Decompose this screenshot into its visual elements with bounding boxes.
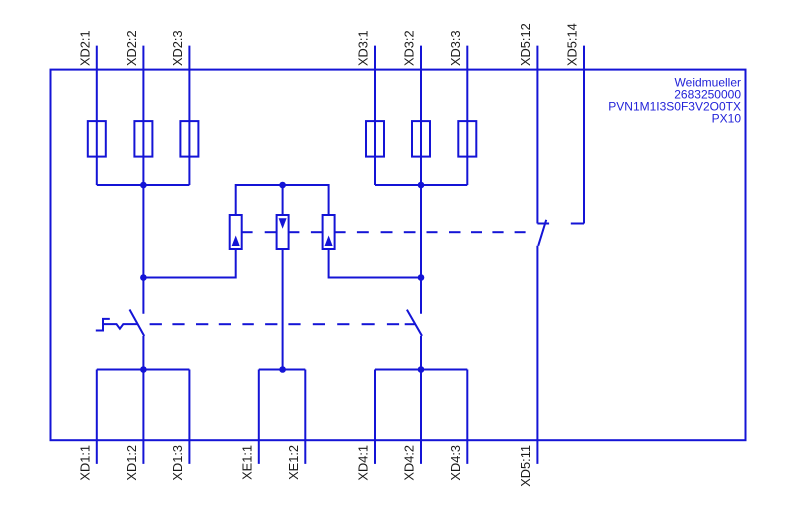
wire XD4:3 stub bbox=[466, 370, 468, 464]
wire arrester trip stub U1 right bbox=[242, 231, 253, 233]
fuse F1 XD2:1 bbox=[88, 121, 106, 157]
surge arrester U1 (left, spark gap) bbox=[230, 215, 242, 249]
svg-text:XD2:1: XD2:1 bbox=[77, 30, 92, 66]
wire XD2:2 vertical upper (terminal through fuse down to switch) bbox=[142, 46, 144, 314]
wire XD2:3 vertical bbox=[188, 46, 190, 185]
svg-text:XD5:12: XD5:12 bbox=[518, 23, 533, 66]
wire dashed trip linkage S1 to S2 bbox=[150, 323, 162, 325]
wire arrester trip stub U3 right bbox=[335, 231, 346, 233]
node junction XD4 join bbox=[418, 366, 425, 373]
fuse F4 XD3:1 bbox=[366, 121, 384, 157]
wire XD1:3 stub bbox=[188, 370, 190, 464]
wire U2 bottom lead to XE1 bbox=[282, 249, 284, 370]
wire XE1:2 stub bbox=[304, 370, 306, 464]
wire arrester trip stub U2 right bbox=[289, 231, 300, 233]
changeover contact S3 fixed contact XD5:12 foot bbox=[537, 223, 549, 225]
node junction XE1 join bbox=[279, 366, 286, 373]
wire XD4:1 stub bbox=[374, 370, 376, 464]
wire arrester trip stub U3 left bbox=[311, 231, 323, 233]
wire XD2 group join line bbox=[97, 184, 190, 186]
svg-text:XD2:3: XD2:3 bbox=[170, 30, 185, 66]
wire arrester top bus bbox=[236, 185, 329, 215]
surge arrester U2 (middle, to earth) bbox=[277, 215, 289, 249]
svg-text:XD4:3: XD4:3 bbox=[448, 445, 463, 481]
node junction XD2 join bbox=[140, 182, 147, 189]
wire XD5:14 vertical bbox=[583, 46, 585, 224]
fuse F6 XD3:3 bbox=[458, 121, 476, 157]
surge arrester U3 (right, spark gap) bbox=[323, 215, 335, 249]
switch S1 blade (on XD2:2) bbox=[130, 310, 145, 337]
device outline border bbox=[51, 70, 746, 441]
thermal trip actuator symbol bbox=[96, 319, 110, 331]
svg-text:XD5:14: XD5:14 bbox=[565, 23, 580, 66]
wire XD2:2 lower vertical bbox=[142, 336, 144, 464]
svg-text:XD2:2: XD2:2 bbox=[124, 30, 139, 66]
wire XD3:2 vertical upper bbox=[420, 46, 422, 314]
svg-text:XD1:2: XD1:2 bbox=[124, 445, 139, 481]
svg-text:XD3:2: XD3:2 bbox=[402, 30, 417, 66]
svg-text:XD4:2: XD4:2 bbox=[402, 445, 417, 481]
svg-text:XD1:3: XD1:3 bbox=[170, 445, 185, 481]
wire U1 bottom lead to XD2:2 bbox=[143, 249, 235, 278]
wire trip stub at switch S2 bbox=[405, 323, 416, 325]
wire XD4 group join line bbox=[375, 369, 467, 371]
fuse F2 XD2:2 bbox=[134, 121, 152, 157]
svg-text:XD5:11: XD5:11 bbox=[518, 445, 533, 487]
wire XD3 group join line bbox=[375, 184, 467, 186]
node junction on XD3:2 bbox=[418, 274, 425, 281]
wire XD5:11 common vertical bbox=[536, 246, 538, 464]
svg-text:XE1:2: XE1:2 bbox=[286, 445, 301, 480]
wire middle arrester top lead bbox=[282, 185, 284, 215]
wire XE1 group join line bbox=[259, 369, 306, 371]
wire XE1:1 stub bbox=[258, 370, 260, 464]
wire XD1 group join line bbox=[97, 369, 190, 371]
fuse F5 XD3:2 bbox=[412, 121, 430, 157]
wire XD4:2 lower vertical bbox=[420, 336, 422, 464]
wire dashed trip linkage to changeover contact bbox=[357, 231, 369, 233]
changeover contact S3 blade bbox=[538, 220, 546, 246]
wire XD2:1 vertical (terminal stub through fuse to join line) bbox=[96, 46, 98, 185]
fuse F3 XD2:3 bbox=[180, 121, 198, 157]
node junction XD1 join bbox=[140, 366, 147, 373]
svg-text:PX10: PX10 bbox=[712, 112, 742, 126]
changeover contact S3 fixed contact XD5:14 foot bbox=[571, 223, 584, 225]
wire XD3:1 vertical bbox=[374, 46, 376, 185]
wire XD1:1 stub bbox=[96, 370, 98, 464]
wire trip line with kink to switch S1 bbox=[103, 324, 138, 329]
svg-text:XD1:1: XD1:1 bbox=[77, 445, 92, 481]
svg-text:XE1:1: XE1:1 bbox=[239, 445, 254, 480]
svg-text:XD3:1: XD3:1 bbox=[356, 30, 371, 66]
wire U3 bottom lead to XD3:2 bbox=[329, 249, 421, 278]
svg-text:XD3:3: XD3:3 bbox=[448, 30, 463, 66]
node junction arrester bus bbox=[279, 182, 286, 189]
wire arrester trip stub U2 left bbox=[265, 231, 277, 233]
wire XD3:3 vertical bbox=[466, 46, 468, 185]
node junction on XD2:2 bbox=[140, 274, 147, 281]
svg-text:XD4:1: XD4:1 bbox=[356, 445, 371, 481]
switch S2 blade (on XD3:2/XD4:2) bbox=[407, 310, 422, 336]
node junction XD3 join bbox=[418, 182, 425, 189]
wire XD5:12 vertical bbox=[536, 46, 538, 224]
